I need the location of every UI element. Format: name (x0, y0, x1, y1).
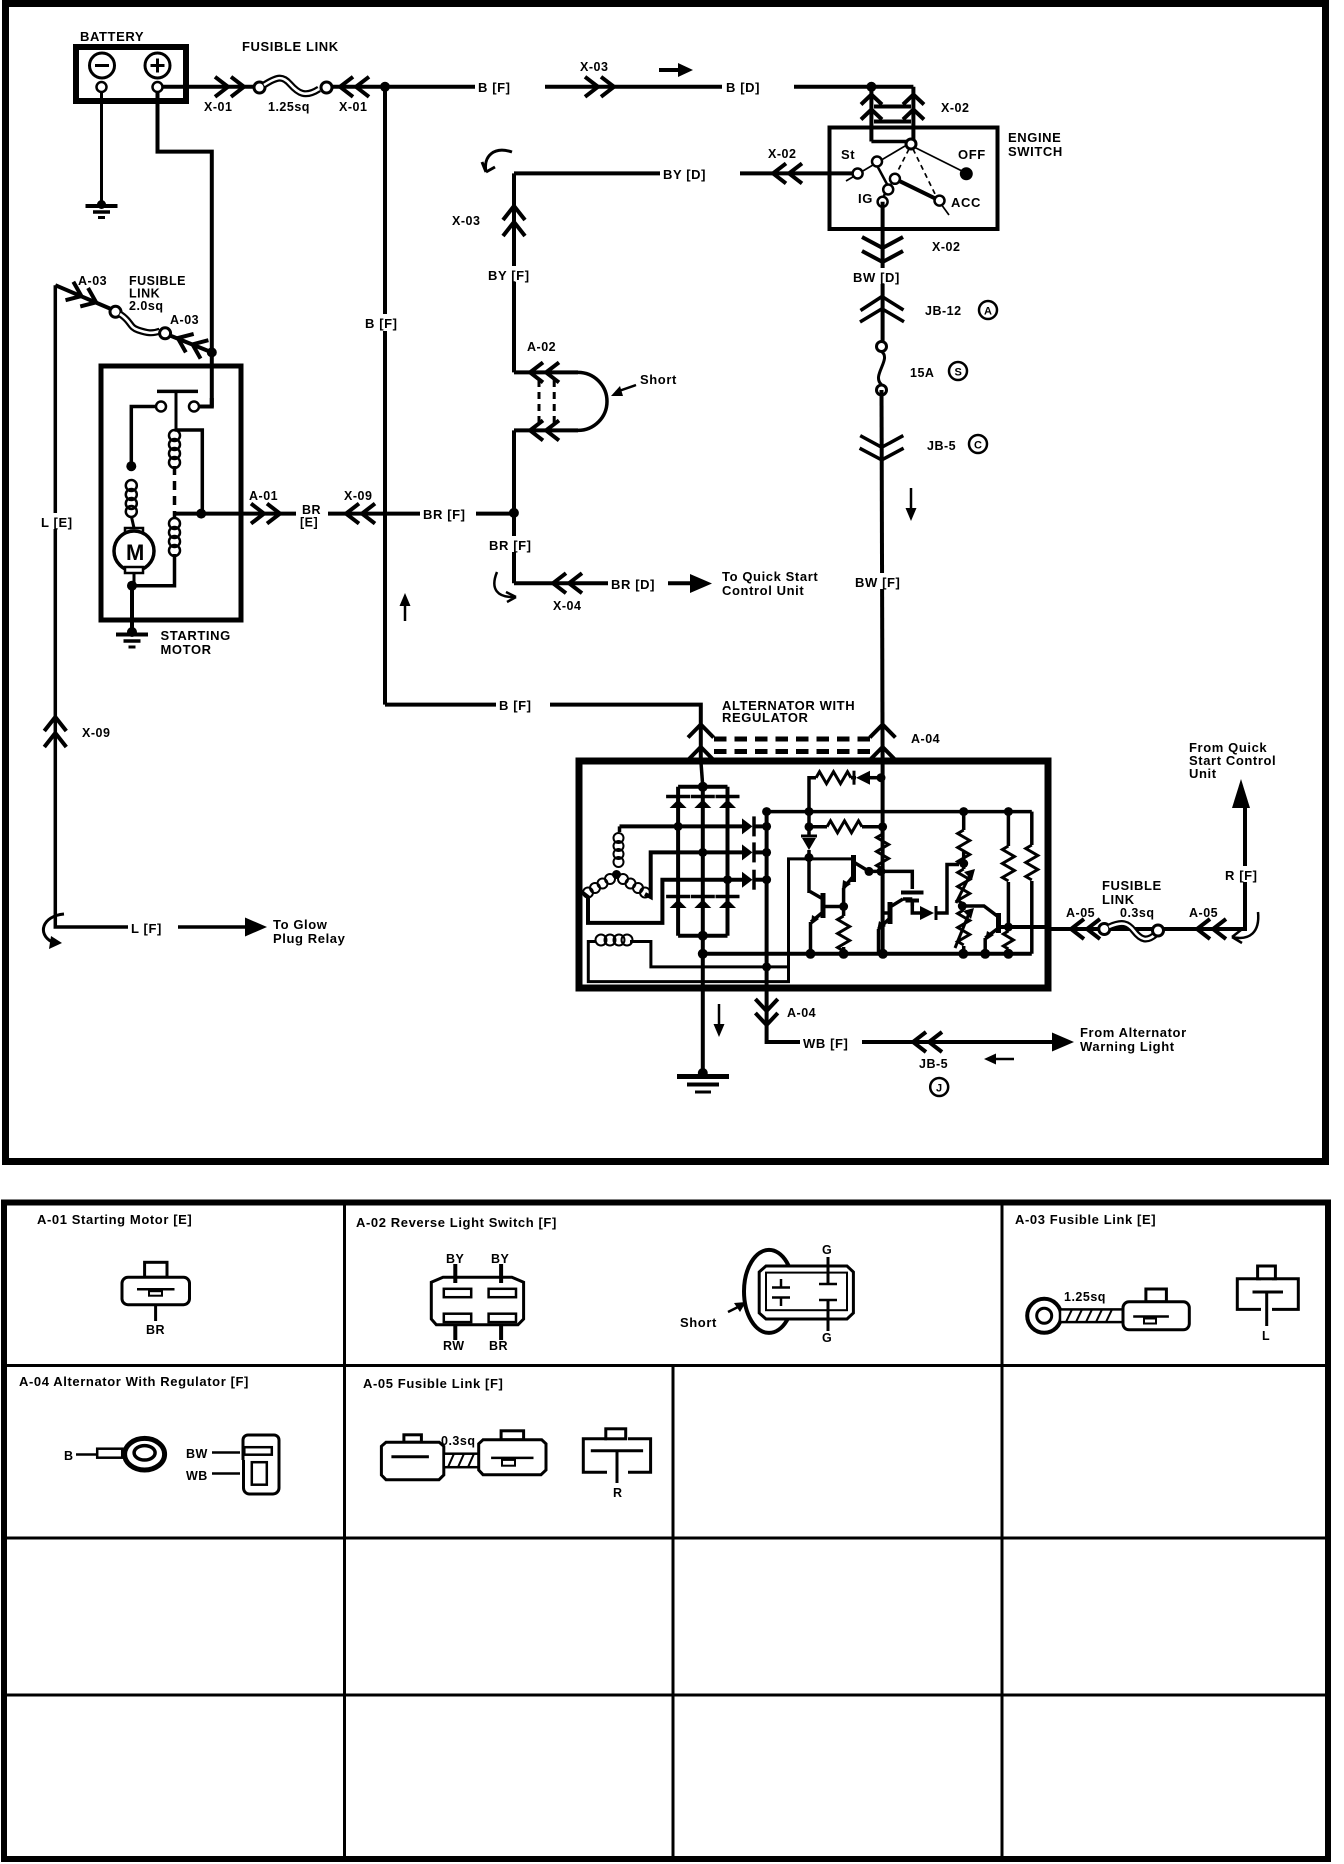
connector A-04 bottom arrows (755, 999, 777, 1025)
svg-text:LINK: LINK (1102, 892, 1135, 907)
connector JB-5 arrows bottom (913, 1032, 942, 1052)
wire coil bottom to motor junction (132, 554, 175, 586)
wire X-04 branch (514, 581, 697, 585)
svg-text:0.3sq: 0.3sq (1120, 906, 1154, 920)
wire stator phase 2 (645, 852, 745, 897)
svg-text:A-04 Alternator With Regulator: A-04 Alternator With Regulator [F] (19, 1374, 249, 1389)
svg-text:X-02: X-02 (768, 147, 796, 161)
node A-01 branch (196, 509, 206, 519)
svg-text:A-02: A-02 (527, 340, 556, 354)
node field junction (126, 461, 136, 471)
svg-text:[E]: [E] (300, 516, 318, 530)
label BW [D] (851, 268, 913, 285)
svg-text:2.0sq: 2.0sq (129, 299, 163, 313)
symbol circled C (969, 435, 987, 453)
svg-text:Control Unit: Control Unit (722, 583, 804, 598)
ground alternator (677, 1068, 729, 1092)
connector A-05 arrows left (1071, 919, 1100, 939)
connector icon A-05 mid (479, 1431, 546, 1475)
regulator ground rail (703, 952, 1032, 956)
transistor Q2 (810, 892, 844, 954)
label R [F] (1222, 866, 1270, 883)
diode D5 bottom row (691, 897, 715, 909)
curly arrow L corner (43, 914, 64, 942)
label BR [F] vertical (487, 536, 543, 553)
arrow from alternator warning light (1052, 1033, 1074, 1052)
label ALTERNATOR WITH REGULATOR (722, 698, 855, 725)
curly arrow X-04 (494, 572, 516, 602)
wire B main top (332, 85, 913, 89)
connector X-09 arrows left (44, 717, 66, 747)
svg-text:BR: BR (489, 1339, 508, 1353)
svg-text:A-05: A-05 (1189, 906, 1218, 920)
label ENGINE SWITCH (1008, 130, 1063, 159)
connector A-02 reverse light switch (514, 340, 607, 440)
wire BW below fuse (882, 390, 883, 760)
svg-text:X-03: X-03 (452, 214, 480, 228)
label B [F] lower (496, 696, 550, 713)
svg-text:A-05: A-05 (1066, 906, 1095, 920)
wire BY [F] vertical (512, 173, 516, 372)
svg-text:G: G (822, 1243, 832, 1257)
coil field winding (126, 480, 137, 517)
connector icon A-04 BW WB (186, 1435, 279, 1494)
zener diode Z1 (801, 812, 817, 893)
regulator top branch resistor R1 and diode (809, 771, 886, 812)
svg-text:1.25sq: 1.25sq (1064, 1290, 1106, 1304)
connector X-03 arrows left (503, 206, 525, 236)
svg-text:BY [F]: BY [F] (488, 268, 530, 283)
label From Alternator Warning Light (1080, 1025, 1187, 1054)
connector icon A-05 left (381, 1435, 443, 1480)
svg-text:B: B (64, 1449, 74, 1463)
node stator center (612, 870, 621, 879)
resistor R5 column (1002, 812, 1014, 954)
svg-text:RW: RW (443, 1339, 465, 1353)
arrow small left (984, 1054, 1014, 1065)
node bus junctions (762, 807, 771, 971)
hatched wire A-03 (1060, 1309, 1123, 1322)
transistor Q3 (877, 899, 912, 954)
connector A-03 arrows upper (66, 282, 101, 312)
wire stator phase 3 (583, 880, 745, 923)
MAIN-FRAME (6, 4, 1326, 1162)
svg-text:A-02 Reverse Light Switch [F]: A-02 Reverse Light Switch [F] (356, 1215, 557, 1230)
svg-text:IG: IG (858, 191, 873, 206)
svg-text:BR [F]: BR [F] (423, 507, 466, 522)
wire collector line to capacitor (869, 871, 912, 889)
svg-text:0.3sq: 0.3sq (441, 1434, 475, 1448)
battery plus terminal (145, 53, 170, 92)
label BR [F] horizontal (420, 505, 482, 522)
svg-text:Warning Light: Warning Light (1080, 1039, 1175, 1054)
label FUSIBLE LINK 2.0sq (129, 274, 186, 313)
diode D2 top row (691, 797, 715, 809)
capacitor C1 (901, 893, 924, 907)
connector A-05 arrows right (1197, 919, 1226, 939)
svg-text:BY: BY (491, 1252, 510, 1266)
connector X-02 left arrows (773, 163, 802, 183)
coil hold-in (169, 518, 180, 556)
svg-text:A-01 Starting Motor [E]: A-01 Starting Motor [E] (37, 1212, 192, 1227)
wire B [F] to alternator (385, 705, 701, 760)
symbol circled S (949, 362, 967, 380)
motor M (114, 516, 154, 586)
svg-text:BY: BY (446, 1252, 465, 1266)
label BY [F] (486, 266, 542, 283)
hatched wire A-05 (444, 1454, 479, 1468)
connector icon A-04 B ring (64, 1438, 165, 1470)
wire BY [D] horizontal (514, 171, 855, 175)
diode trio D7 (742, 816, 767, 836)
engine switch box (830, 128, 998, 230)
label BY [D] (660, 165, 740, 182)
symbol circled A (979, 301, 997, 319)
arrow from quick start control unit (1232, 779, 1250, 808)
node junction B (380, 82, 390, 92)
arrow small up (B F) (400, 593, 411, 621)
svg-text:BW [D]: BW [D] (853, 270, 900, 285)
starting motor box (101, 366, 241, 620)
arrow small down (906, 488, 917, 521)
connector X-01 (right arrows) (340, 77, 369, 97)
wire battery plus feed down (158, 92, 212, 407)
wire coil right branch (175, 430, 203, 514)
table grid (4, 1202, 1328, 1859)
svg-text:STARTING: STARTING (161, 628, 231, 643)
starting motor relay contacts (156, 391, 212, 430)
curly arrow A-05 corner (1232, 912, 1258, 943)
resistor R6 column (1026, 812, 1038, 954)
svg-text:X-02: X-02 (941, 101, 969, 115)
svg-text:BW [F]: BW [F] (855, 575, 900, 590)
curly arrow BY corner (482, 150, 512, 172)
connector X-09 arrows mid (346, 504, 375, 524)
coil pull-in (169, 430, 180, 468)
svg-text:JB-5: JB-5 (927, 439, 956, 453)
svg-text:BW: BW (186, 1447, 208, 1461)
node A-03 junction (207, 347, 217, 357)
variable resistor VR1 (955, 812, 975, 954)
wire L vertical (55, 285, 250, 927)
wire A-05 output (1048, 806, 1245, 929)
connector icon A-03 mate (1237, 1266, 1298, 1326)
connector icon A-01 (122, 1262, 190, 1321)
label B [F] top (475, 78, 545, 95)
svg-text:WB: WB (186, 1469, 208, 1483)
ground starting motor (116, 627, 148, 647)
svg-text:FUSIBLE LINK: FUSIBLE LINK (242, 39, 339, 54)
svg-text:A-04: A-04 (911, 732, 940, 746)
label BW [F] (853, 573, 913, 590)
wire Q1 emitter column with resistor R4 (838, 888, 850, 954)
wire BW input inside (881, 760, 885, 954)
wire A-02 down to BR junction (512, 430, 516, 583)
svg-text:B [F]: B [F] (478, 80, 511, 95)
arrow small down alternator (714, 1004, 725, 1037)
label B [D] (722, 78, 794, 95)
diode D4 bottom row (666, 897, 690, 909)
svg-text:BR: BR (146, 1323, 165, 1337)
label BR [E] (296, 502, 328, 530)
svg-text:Plug Relay: Plug Relay (273, 931, 346, 946)
svg-text:L [F]: L [F] (131, 921, 162, 936)
wire A-01 output (175, 512, 429, 516)
connector X-02 above engine switch (861, 95, 924, 122)
arrow short pointer (611, 385, 636, 396)
svg-text:Short: Short (680, 1315, 717, 1330)
wire WB output (767, 988, 1055, 1042)
svg-text:OFF: OFF (958, 147, 986, 162)
svg-text:BR [D]: BR [D] (611, 577, 655, 592)
wire B input inside (701, 760, 703, 787)
svg-text:A-03 Fusible Link [E]: A-03 Fusible Link [E] (1015, 1212, 1156, 1227)
wire relay to field (131, 407, 156, 468)
svg-text:FUSIBLE: FUSIBLE (1102, 878, 1162, 893)
diode trio D9 (742, 870, 767, 890)
svg-text:Short: Short (640, 372, 677, 387)
wire stator phase 1 (620, 824, 746, 828)
connector X-02 below engine switch (862, 237, 903, 262)
label B [F] vertical (362, 314, 410, 331)
connector A-03 arrows lower (174, 329, 209, 359)
svg-text:A-03: A-03 (170, 313, 199, 327)
diode D6 bottom row (716, 897, 740, 909)
node junction at engine switch (866, 82, 876, 92)
connector X-04 arrows (553, 573, 582, 593)
label Short pointer (680, 1302, 746, 1330)
svg-text:JB-5: JB-5 (919, 1057, 948, 1071)
connector X-03 top arrows (585, 77, 614, 97)
connector icon A-05 right (583, 1429, 650, 1483)
label L [E] (38, 513, 80, 530)
connector A-04 top arrows (688, 725, 895, 761)
stator winding Y (583, 833, 650, 898)
wire battery plus to fusible link (162, 85, 254, 89)
svg-text:ENGINE: ENGINE (1008, 130, 1061, 145)
svg-text:R [F]: R [F] (1225, 868, 1258, 883)
diode bridge rails (678, 787, 727, 936)
svg-text:A-03: A-03 (78, 274, 107, 288)
svg-text:J: J (936, 1083, 942, 1095)
wire B[F] vertical long (383, 87, 387, 705)
svg-text:SWITCH: SWITCH (1008, 144, 1063, 159)
node phase junctions (674, 822, 732, 884)
svg-text:L: L (1262, 1329, 1270, 1343)
diode D3 top row (716, 797, 740, 809)
transistor Q1 (842, 855, 874, 890)
svg-text:A-05 Fusible Link [F]: A-05 Fusible Link [F] (363, 1376, 503, 1391)
wire A-03 diagonal lower (170, 336, 212, 353)
svg-text:BR [F]: BR [F] (489, 538, 532, 553)
svg-text:B [F]: B [F] (499, 698, 532, 713)
svg-text:BATTERY: BATTERY (80, 29, 144, 44)
node regulator rail junctions (805, 807, 1013, 816)
connector JB-12 (860, 297, 904, 323)
label RW BR (443, 1339, 508, 1353)
label To Quick Start Control Unit (722, 569, 818, 598)
connector JB-5 (860, 436, 904, 460)
svg-text:1.25sq: 1.25sq (268, 100, 310, 114)
label L [F] (128, 919, 178, 936)
svg-text:X-01: X-01 (204, 100, 232, 114)
diode trio D8 (742, 842, 767, 862)
svg-text:S: S (955, 367, 962, 379)
engine switch internals (846, 139, 973, 215)
label WB [F] (800, 1034, 862, 1051)
node BR junction (509, 508, 519, 518)
svg-text:To Quick Start: To Quick Start (722, 569, 818, 584)
battery box (76, 47, 186, 101)
svg-text:X-03: X-03 (580, 60, 608, 74)
wire B+ output inside (999, 925, 1049, 929)
wire diode bus vertical (765, 812, 769, 988)
wire to engine switch left pin (869, 87, 873, 142)
transistor Q4 (962, 906, 998, 954)
label BR [D] (608, 575, 668, 592)
connector icon A-03 ring (1027, 1299, 1061, 1333)
wire motor to ground (130, 586, 134, 634)
svg-text:A-01: A-01 (249, 489, 278, 503)
svg-text:ACC: ACC (951, 195, 981, 210)
svg-text:X-02: X-02 (932, 240, 960, 254)
battery minus terminal (90, 53, 115, 92)
arrow to glow plug relay (245, 918, 267, 937)
fusible link 1.25sq (254, 78, 332, 94)
svg-text:To Glow: To Glow (273, 917, 328, 932)
wire A-03 diagonal upper (55, 285, 111, 309)
label BY BY (446, 1252, 510, 1266)
svg-text:X-01: X-01 (339, 100, 367, 114)
svg-text:WB [F]: WB [F] (803, 1036, 848, 1051)
svg-text:L [E]: L [E] (41, 515, 73, 530)
node output junction (1004, 923, 1013, 932)
resistor R3 vertical on BW (877, 827, 889, 876)
rotor field coil (596, 935, 633, 946)
svg-text:R: R (613, 1486, 623, 1500)
diode D10 (912, 865, 959, 921)
label To Glow Plug Relay (273, 917, 346, 946)
svg-text:M: M (126, 540, 144, 565)
ground battery (86, 200, 118, 218)
label From Quick Start Control Unit (1189, 740, 1276, 781)
resistor R2 horizontal (805, 821, 888, 833)
node bridge top (698, 782, 708, 792)
svg-text:MOTOR: MOTOR (161, 642, 212, 657)
wire BR to junction (476, 512, 514, 516)
svg-text:St: St (841, 147, 855, 162)
fusible link 2.0sq squiggle (110, 306, 171, 339)
alternator box (579, 761, 1048, 988)
connector icon A-03 body (1123, 1289, 1189, 1330)
label STARTING MOTOR (161, 628, 231, 657)
svg-text:A-04: A-04 (787, 1006, 816, 1020)
svg-text:BY [D]: BY [D] (663, 167, 706, 182)
svg-text:A: A (984, 306, 992, 318)
svg-text:B [F]: B [F] (365, 316, 398, 331)
wire rotor left lead (588, 859, 852, 982)
fuse 15A (877, 342, 887, 396)
symbol circled J (930, 1078, 948, 1096)
node motor bottom (127, 581, 137, 591)
arrow marker right (top) (659, 63, 693, 77)
wire A-04 dashed connector lines (714, 739, 870, 752)
svg-text:From Alternator: From Alternator (1080, 1025, 1187, 1040)
wire engine switch output down (881, 202, 885, 346)
wire dashed plunger (173, 466, 177, 518)
svg-text:X-04: X-04 (553, 599, 581, 613)
wire alternator ground column (701, 936, 705, 1073)
regulator main rail (767, 810, 1032, 814)
svg-text:Unit: Unit (1189, 766, 1217, 781)
wire to engine switch right pin (911, 87, 915, 140)
svg-text:B [D]: B [D] (726, 80, 760, 95)
diode D1 top row (666, 797, 690, 809)
node ground rail junctions (698, 931, 1014, 959)
svg-text:X-09: X-09 (344, 489, 372, 503)
connector icon A-02 short (744, 1250, 853, 1333)
fusible link 0.3sq (1099, 924, 1164, 940)
connector A-01 arrows (251, 504, 280, 524)
connector X-01 (left arrows) (215, 77, 244, 97)
arrow to quick start control unit (690, 574, 712, 593)
wire battery minus to ground (100, 92, 103, 205)
label FUSIBLE LINK right (1102, 878, 1162, 907)
svg-text:G: G (822, 1331, 832, 1345)
svg-text:REGULATOR: REGULATOR (722, 710, 809, 725)
svg-text:X-09: X-09 (82, 726, 110, 740)
svg-text:C: C (974, 440, 982, 452)
svg-text:15A: 15A (910, 366, 934, 380)
wire rotor right lead (630, 942, 789, 967)
svg-text:JB-12: JB-12 (925, 304, 962, 318)
connector icon A-02 (431, 1264, 523, 1340)
